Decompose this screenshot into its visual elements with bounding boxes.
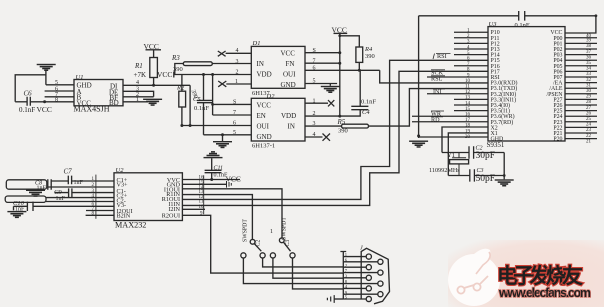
wire C6 left lead [15,101,27,103]
wire U1 pin5 GND line [46,84,74,86]
no-connect X on D2 pin1 [328,100,334,106]
wire D1 pin6 line to R4 node [305,69,380,72]
label R5 [337,118,346,126]
pin number 6 [55,86,58,92]
pin number 7 [55,92,58,98]
svg-text:33: 33 [586,72,592,77]
long thick bar 1 [6,180,47,189]
wire C2 drop to ground [503,153,505,180]
wire D2 GND pin5 line [204,133,252,136]
svg-text:50pF: 50pF [476,174,496,184]
svg-text:INI: INI [433,88,442,95]
label MAX4SJH [74,105,110,114]
wire D2 GND stub down [222,135,224,141]
label D2 [266,93,276,100]
svg-text:12: 12 [465,90,471,95]
capacitor C10 [27,202,33,211]
wire D1 GND stub down [329,84,331,86]
svg-text:7: 7 [313,58,316,64]
svg-text:R1: R1 [134,62,143,70]
IC U2 MAX232 box [114,173,182,221]
svg-text:24: 24 [586,123,592,128]
label 1nF [37,186,47,192]
svg-text:D1: D1 [252,40,261,47]
pin number 4 [236,48,239,54]
svg-text:电子发烧友: 电子发烧友 [497,264,583,288]
watermark text 电子发烧友 [497,264,583,288]
svg-text:11: 11 [199,200,204,205]
wire VCC rail to D1 pin2 [174,73,252,76]
svg-text:29: 29 [586,95,592,100]
label 1nF [56,196,66,202]
wire ground stub down [45,71,47,85]
label VCC [226,174,241,183]
svg-text:SWSPDT: SWSPDT [282,217,288,240]
svg-text:S: S [313,48,316,54]
wire S2 contact b to DB9 pin2 [263,258,344,267]
label 1nF [15,207,25,213]
svg-text:U2: U2 [116,167,125,174]
wire row2 to U2 [48,186,114,188]
label U2 left pins [117,177,133,220]
pin numbers U2 left [92,177,95,216]
svg-text:C11: C11 [214,166,224,172]
svg-text:FN: FN [286,60,295,68]
label 390 [365,53,375,60]
bus line right of U2 [203,175,205,214]
label 390 [173,66,183,73]
svg-text:C4: C4 [362,109,370,116]
wire row1 C7 to U2 [72,180,114,182]
pin number 3 [136,86,139,92]
svg-text:0.1nF: 0.1nF [19,106,35,114]
connector J pin 5 [343,296,371,301]
wire top cap line [419,15,596,17]
no-connect X on D1 pin1 [218,81,226,87]
resistor R3 [183,62,212,66]
ground main [409,141,428,148]
watermark background [448,240,604,307]
wire D2 OUI line [182,125,251,127]
wire C5 bottom lead to D2 GND line [203,103,205,135]
svg-text:3: 3 [313,121,316,127]
wire U3 right pin stubs [565,38,597,139]
net label WR [431,111,444,118]
wire D1 pin7 line [305,62,341,65]
wire VCC underline bar [334,32,348,34]
svg-text:OUI: OUI [283,70,296,78]
svg-text:OUI: OUI [257,123,270,131]
capacitor C3 [470,169,475,181]
label U1 left pins [77,81,92,107]
label C7 [64,168,73,176]
svg-text:30: 30 [586,89,592,94]
svg-text:MAX232: MAX232 [115,221,146,230]
label VCC over R1 [144,42,159,51]
svg-text:GND: GND [281,81,296,89]
svg-text:34: 34 [586,67,592,72]
capacitor C11 [205,170,222,172]
connector J pin digits [345,252,348,300]
label D1 pins [257,49,297,89]
label C8 [35,180,42,186]
svg-text:110992MHs: 110992MHs [429,167,460,174]
wire R4 bottom lead [358,62,360,70]
wire D2 VCC pin8 line [211,103,251,106]
connector J pin 6 [343,259,383,264]
label R1 [134,62,143,70]
wire U2 R1IN to S2 [182,195,252,240]
svg-text:EN: EN [257,112,266,120]
svg-text:25: 25 [586,117,592,122]
wire row1 from C8 to C7 [51,180,68,182]
svg-text:+7K: +7K [134,71,147,79]
pin number 3 [236,59,239,65]
svg-text:390: 390 [365,53,375,60]
capacitor C6 [27,97,30,106]
wire D1 pin1 line [226,83,251,85]
wire U2 VVC line [182,178,240,181]
label 1nF [74,180,84,186]
svg-text:Y1: Y1 [447,152,455,159]
svg-text:VCC: VCC [281,49,296,57]
pin number 5 [55,80,58,86]
switch S3 contact a [270,253,275,258]
pin number 2 [236,70,239,76]
wire row4 to U2 [46,197,114,199]
label C11 [214,166,224,172]
svg-text:VDD: VDD [257,70,272,78]
svg-text:GND: GND [257,133,272,141]
capacitor C7 [68,176,71,185]
pin number 2 [313,111,316,117]
wire C6 loop: left vertical and top horizontal [15,75,46,102]
svg-text:37: 37 [586,50,592,55]
wire row5 to U2 [46,201,114,203]
wire U3 left pin stubs [412,32,488,122]
svg-text:30pF: 30pF [476,151,496,161]
ground tick on GND line [227,181,232,188]
no-connect X on D1 pin4 [218,51,226,56]
wire R3 right lead to D1 pin3 [212,63,251,65]
svg-text:35: 35 [586,61,592,66]
label 30pF [476,151,496,161]
svg-text:26: 26 [586,111,592,116]
svg-text:C5: C5 [193,96,201,103]
svg-text:3: 3 [236,59,239,65]
watermark text www.elecfans.com [498,286,591,300]
wire D1 pin8 line [305,51,341,54]
wire U1 DI line to node [123,84,190,87]
svg-text:VCC: VCC [157,70,172,79]
wire R2 bottom lead [180,107,183,127]
svg-text:4: 4 [236,48,239,54]
label +7K [134,71,147,79]
wire row7 stub [86,210,114,212]
svg-text:390: 390 [173,66,183,73]
svg-text:C6: C6 [24,90,33,98]
wire row6 C10 line [14,205,115,207]
ground under C10 [7,211,26,218]
svg-text:1: 1 [313,98,316,104]
svg-text:2: 2 [236,70,239,76]
svg-text:31: 31 [586,83,592,88]
svg-text:RD: RD [431,116,440,123]
capacitor C2 [469,146,474,158]
ground sideways at DB9 [327,295,334,303]
label Y1 [447,152,455,159]
resistor R1 [150,58,158,78]
svg-text:15: 15 [465,107,471,112]
svg-text:5: 5 [313,79,316,85]
capacitor C9 [69,188,72,197]
svg-text:RSI: RSI [437,53,447,60]
long thick bar 2 [5,196,46,202]
svg-text:VCC: VCC [37,105,52,114]
label S2 [256,240,262,247]
IC U3 89S51 box [488,27,565,141]
switch S2 [250,239,261,251]
label VCC top [332,25,347,34]
pin number 3 [313,121,316,127]
svg-text:1: 1 [270,229,273,235]
wire S2 contact a to DB9 pin8 [243,258,343,284]
svg-text:17: 17 [465,118,471,123]
wire U1 pin6 A line [45,90,74,92]
pin number 5 [313,79,316,85]
wire S3 contact a to DB9 pin3 [273,258,343,278]
svg-text:6: 6 [313,65,316,71]
label 390 rotated [190,89,199,100]
label C5 [193,96,201,103]
wire R1 top lead [153,50,155,58]
wire D2 pin2 line [305,115,340,117]
label C4 [362,109,370,116]
svg-text:BD: BD [109,99,119,107]
svg-text:13: 13 [465,96,471,101]
capacitor C8 [48,179,51,189]
svg-text:14: 14 [465,101,471,106]
wire ground to DB9 pin5 [334,298,343,300]
ground crystal [495,179,514,186]
svg-text:VDD: VDD [281,112,296,120]
wire VCC vertical rail [338,33,341,117]
pin number 6 [313,65,316,71]
connector J body [361,248,389,303]
ground above C11 [204,151,223,158]
svg-text:U1: U1 [76,74,84,81]
no-connect X on D2 pin4 [323,134,331,141]
label 390 [338,127,348,134]
connector J pin 2 [343,265,371,270]
svg-text:0.1nF: 0.1nF [515,22,530,29]
resistor R2 [179,91,186,107]
ground top-left [37,64,56,71]
wire R1 bottom lead [153,78,155,86]
svg-text:2: 2 [313,111,316,117]
svg-text:R2OUI: R2OUI [162,213,180,220]
wire U1 pin7 B line [45,96,74,98]
svg-text:36: 36 [586,55,592,60]
pin number 4 [313,132,316,138]
wire D2 pin1 line [305,102,328,104]
connector J pin 1 [343,254,371,259]
watermark logo circle [448,249,500,306]
label MAX232 [115,221,146,230]
wire D2 pin8 to pin7 tie [212,75,214,116]
IC D1 6N137 box [251,46,305,88]
wire D1 out staircase to MCU RXD [380,70,488,83]
svg-text:RSL: RSL [431,75,443,82]
label 6H137 [252,90,270,97]
label D2 pins [257,101,297,141]
svg-text:0.1nF: 0.1nF [361,99,376,106]
label U3 left pin names [491,30,518,142]
svg-text:www.elecfans.com: www.elecfans.com [498,286,591,300]
wire S3 contact b to DB9 pin4 [293,258,344,289]
wire X2 row to crystal [442,127,488,153]
connector J pin 7 [343,270,383,275]
net label SCK [431,70,445,77]
switch S3 [279,238,290,251]
svg-text:20: 20 [465,135,471,140]
label VCC rail tick [157,70,172,79]
svg-text:MAX4SJH: MAX4SJH [74,105,110,114]
label C10 [13,200,25,207]
ground under bar1 [26,190,45,197]
wire C5 top lead [203,75,205,101]
pin number 4 [136,80,139,86]
wire D1 pin4 line [226,52,252,54]
wire C10 left drop [13,206,15,210]
pin number 7 [233,110,236,116]
ground under U1 DE/BF [143,99,162,106]
svg-text:8: 8 [55,97,58,103]
IC D2 6N137 box [251,98,305,141]
switch S2 contact b [260,253,265,258]
wire ground to MCU GND row [419,136,488,138]
svg-text:390: 390 [338,127,348,134]
svg-text:18: 18 [465,124,471,129]
connector J pin 4 [343,286,371,291]
connector J bus vertical [340,252,346,300]
svg-text:C7: C7 [64,168,73,176]
label 0.1nF [214,172,229,178]
wire U2 GND line [182,183,226,185]
switch S3 label SWSPDT [282,217,288,240]
wire R5 right to MCU TXD [369,89,489,127]
pin numbers U3 right 40-21 [586,34,592,145]
label 6H137-1 [252,142,275,149]
svg-text:5: 5 [55,80,58,86]
connector J pin 9 [343,292,383,297]
switch S3 contact b [290,253,295,258]
wire row8 stub [86,214,114,216]
wire R3 left lead corner [175,64,184,75]
svg-text:IN: IN [288,123,295,131]
pin number 5 [233,130,236,136]
wire U2 I2IN stub [182,208,205,210]
wire VCC tick bar [173,72,175,78]
wire VCC underline bar [146,49,162,51]
label R2 [176,85,185,92]
wire X1 row to crystal [448,133,488,176]
svg-text:6: 6 [233,121,236,127]
svg-text:P20: P20 [553,137,562,143]
net label RD [431,116,443,123]
label 0.1nF [19,106,35,114]
wire VCC to R4 top [338,34,359,47]
svg-text:10: 10 [465,79,471,84]
svg-text:C3: C3 [285,240,291,247]
svg-text:J: J [360,246,363,252]
label C3 [477,168,484,174]
svg-text:38: 38 [586,44,592,49]
label S3 [285,240,291,247]
label U1 [76,74,84,81]
label R4 [364,46,373,53]
wire staircase Q from MAX232 to MCU [182,71,488,205]
svg-text:23: 23 [586,128,592,133]
svg-text:28: 28 [586,100,592,105]
resistor R5 [342,124,369,128]
svg-text:U3: U3 [489,21,498,28]
net label RST [431,75,445,82]
label S9351 [487,141,505,149]
svg-text:VCC: VCC [226,174,241,183]
wire main ground vertical [417,16,420,138]
net label /RSI [433,53,451,60]
wire C4 top lead [359,70,361,106]
wire U2 I1OUI to S3 [182,189,282,238]
label 0.1nF [515,22,530,29]
wire C11 leads [211,158,213,179]
label VCC [37,105,52,114]
switch S2 label SWSPDT [243,219,249,242]
pin number 6 [233,121,236,127]
crystal Y1 [450,153,469,176]
svg-text:22: 22 [586,134,592,139]
label U2 [116,167,125,174]
svg-text:4: 4 [313,132,316,138]
connector J pin 8 [343,281,383,286]
svg-text:SWSPDT: SWSPDT [243,219,249,242]
label C9 [54,189,62,196]
capacitor C5 [197,100,212,102]
label R3 [171,54,180,62]
ground under D2 [213,141,232,148]
connector J pin 3 [343,275,371,280]
pin numbers U2 right [199,176,205,217]
label U3 right pin names [546,30,563,142]
svg-text:7: 7 [233,110,236,116]
svg-text:GHD: GHD [491,137,505,143]
svg-text:11: 11 [465,85,470,90]
svg-text:B2IN: B2IN [117,213,131,220]
wire C4 bottom lead [340,110,360,116]
label C2 [476,146,483,152]
pin number 2 [136,92,139,98]
svg-text:27: 27 [586,106,592,111]
pin number 8 [233,99,236,105]
ground on D1 pin5 [321,86,340,93]
wire D2 pin4 line [305,136,323,138]
label 50pF [476,174,496,184]
pin number 1 [313,98,316,104]
net label INI [433,88,445,95]
pin number 1 [235,79,238,85]
svg-text:6H137-1: 6H137-1 [252,142,275,149]
